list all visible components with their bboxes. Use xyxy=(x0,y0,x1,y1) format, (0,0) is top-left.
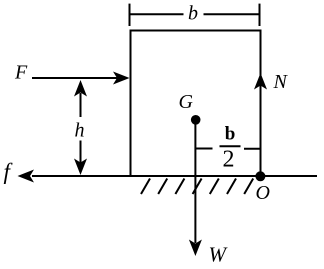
h dimension bottom arrowhead xyxy=(74,159,87,176)
ground line xyxy=(32,175,317,177)
svg-text:b: b xyxy=(225,124,236,145)
h dimension upper shaft xyxy=(80,93,82,117)
svg-text:O: O xyxy=(256,182,270,204)
svg-text:2: 2 xyxy=(223,146,235,172)
svg-text:h: h xyxy=(75,120,85,142)
dimension b right tick xyxy=(259,4,261,26)
hatch 5 xyxy=(210,179,219,195)
weight W arrow wire xyxy=(194,120,196,243)
hatch 3 xyxy=(175,179,184,195)
block outline xyxy=(131,31,261,177)
center of gravity G dot xyxy=(191,115,201,125)
dimension b line left segment xyxy=(130,13,184,15)
h dimension lower shaft xyxy=(80,141,82,164)
svg-text:N: N xyxy=(273,71,289,93)
force F arrow wire xyxy=(32,77,117,79)
b/2 fraction bar xyxy=(220,145,241,147)
dimension b left tick xyxy=(129,4,131,26)
normal N arrowhead xyxy=(254,73,267,90)
hatch 4 xyxy=(193,179,202,195)
svg-text:F: F xyxy=(14,62,28,84)
svg-text:b: b xyxy=(188,3,198,25)
friction f arrowhead xyxy=(18,170,35,183)
dimension b line right segment xyxy=(204,13,260,15)
h dimension top arrowhead xyxy=(74,80,87,97)
svg-text:W: W xyxy=(209,243,229,267)
svg-text:f: f xyxy=(4,159,14,184)
hatch 2 xyxy=(158,179,167,195)
pivot O dot xyxy=(255,171,265,181)
weight W arrowhead xyxy=(189,240,202,257)
b/2 right dash xyxy=(244,148,261,150)
hatch 1 xyxy=(141,179,150,195)
svg-text:G: G xyxy=(179,91,194,113)
b/2 left dash xyxy=(195,148,212,150)
force F arrowhead xyxy=(113,72,130,85)
hatch 6 xyxy=(227,179,236,195)
hatch 7 xyxy=(244,179,253,195)
